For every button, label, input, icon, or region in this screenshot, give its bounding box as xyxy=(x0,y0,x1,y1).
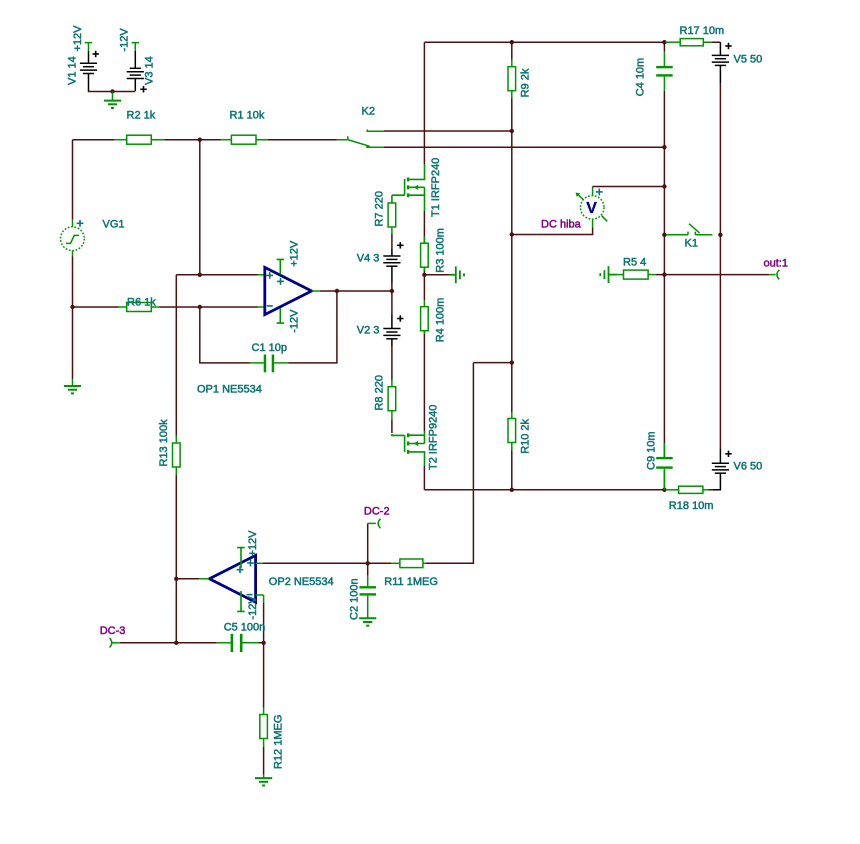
svg-text:R2 1k: R2 1k xyxy=(127,110,156,122)
resistor R10 xyxy=(508,412,532,454)
terminal out:1 xyxy=(764,258,788,280)
wire K2 lower branch xyxy=(384,146,665,148)
resistor R4 xyxy=(421,298,447,343)
resistor R2 xyxy=(114,110,164,145)
wire OP2 minus down xyxy=(263,603,265,643)
ground VG1 xyxy=(64,379,81,393)
wire bottom rail xyxy=(424,489,664,491)
battery V2 xyxy=(357,315,404,347)
node OP2 output R13 xyxy=(174,577,178,581)
transistor T2 IRFP9240 xyxy=(392,405,440,470)
wire R11 riser xyxy=(426,363,512,564)
svg-text:C9 10m: C9 10m xyxy=(645,431,657,470)
node voltmeter bottom xyxy=(510,232,514,236)
svg-text:out:1: out:1 xyxy=(764,258,788,270)
wire R6 row minus input xyxy=(73,306,258,308)
svg-text:C5 100n: C5 100n xyxy=(224,622,266,634)
node minus input xyxy=(198,305,202,309)
capacitor C1 xyxy=(250,342,289,372)
ground mid right-facing xyxy=(450,266,464,283)
node top rail C4 xyxy=(662,40,666,44)
svg-text:C1 10p: C1 10p xyxy=(252,342,287,354)
wire right vertical V5 to V6 xyxy=(719,83,721,449)
svg-text:T2 IRFP9240: T2 IRFP9240 xyxy=(428,405,440,470)
svg-text:V6 50: V6 50 xyxy=(734,461,763,473)
wire K2 upper branch xyxy=(384,130,512,132)
svg-text:-12V: -12V xyxy=(289,309,301,333)
op-amp OP2 xyxy=(199,530,334,620)
svg-text:V1 14: V1 14 xyxy=(67,56,79,85)
wire V1 V3 bottom row xyxy=(89,90,136,93)
svg-text:V2 3: V2 3 xyxy=(357,325,380,337)
ground R5 left-facing xyxy=(600,266,617,283)
svg-text:+12V: +12V xyxy=(247,530,259,557)
svg-text:R5 4: R5 4 xyxy=(623,257,646,269)
node K1 right xyxy=(718,233,722,237)
svg-text:V4 3: V4 3 xyxy=(357,253,380,265)
svg-text:V3 14: V3 14 xyxy=(144,56,156,85)
switch K1 xyxy=(666,224,712,235)
resistor R6 xyxy=(119,297,160,312)
wire R17 to V5 corner xyxy=(703,41,720,43)
svg-text:DC-3: DC-3 xyxy=(100,625,126,637)
svg-text:+12V: +12V xyxy=(289,240,301,267)
svg-text:T1 IRFP240: T1 IRFP240 xyxy=(430,158,442,217)
capacitor C4 xyxy=(635,52,673,97)
svg-text:R13 100k: R13 100k xyxy=(158,419,170,467)
node bottom rail R10 xyxy=(510,488,514,492)
wire R5 out row xyxy=(656,274,769,276)
svg-text:R9 2k: R9 2k xyxy=(520,68,532,97)
wire plus input row xyxy=(176,274,257,276)
terminal DC-3 xyxy=(100,625,126,648)
svg-text:V: V xyxy=(586,200,597,217)
resistor R8 xyxy=(374,375,396,420)
svg-text:C2 100n: C2 100n xyxy=(348,578,360,620)
svg-text:DC-2: DC-2 xyxy=(364,505,390,517)
svg-text:R3 100m: R3 100m xyxy=(435,228,447,273)
wire R3 mid node to ground xyxy=(424,274,449,276)
svg-text:DC hiba: DC hiba xyxy=(541,219,582,231)
resistor R11 xyxy=(384,559,438,588)
wire OP1 output row xyxy=(320,290,392,292)
node voltmeter top xyxy=(662,184,666,188)
svg-text:K2: K2 xyxy=(362,106,375,118)
svg-text:R10 2k: R10 2k xyxy=(520,418,532,453)
wire voltmeter bottom xyxy=(512,227,593,234)
wire C4 C9 vertical xyxy=(663,91,665,490)
capacitor C2 xyxy=(348,576,376,626)
transistor T1 IRFP240 xyxy=(392,158,442,217)
battery V3 xyxy=(119,28,156,93)
wire main left rail y140 xyxy=(73,139,337,141)
generator VG1 xyxy=(61,219,125,257)
node K2 lower C4 xyxy=(662,145,666,149)
node R5 out xyxy=(662,272,666,276)
wire OP2 plus input row xyxy=(263,562,391,564)
battery V4 xyxy=(357,242,404,283)
svg-text:R12 1MEG: R12 1MEG xyxy=(273,715,285,769)
node R2 R1 xyxy=(198,138,202,142)
ground R12 xyxy=(255,775,272,786)
node V1 V3 ground xyxy=(110,89,114,93)
svg-text:OP1 NE5534: OP1 NE5534 xyxy=(197,383,262,395)
wire OP2 output to R13 wire xyxy=(176,578,199,580)
svg-text:R4 100m: R4 100m xyxy=(435,298,447,343)
op-amp OP1 xyxy=(197,240,320,395)
ground top xyxy=(104,92,121,109)
node DC-2 C2 R11 xyxy=(366,561,370,565)
resistor R7 xyxy=(374,191,396,234)
node K2 upper R9 xyxy=(510,129,514,133)
capacitor C5 xyxy=(217,622,265,653)
terminal DC-2 xyxy=(364,505,390,528)
svg-text:VG1: VG1 xyxy=(103,219,125,231)
capacitor C9 xyxy=(645,431,672,489)
resistor R3 xyxy=(421,228,447,273)
node C5 R12 xyxy=(261,641,265,645)
voltmeter DC hiba xyxy=(541,188,607,231)
resistor R13 xyxy=(158,419,180,475)
svg-text:K1: K1 xyxy=(685,238,698,250)
battery V1 xyxy=(67,25,99,91)
svg-text:R17 10m: R17 10m xyxy=(680,25,725,37)
node R11 riser R10 xyxy=(510,360,514,364)
resistor R17 xyxy=(666,25,725,46)
svg-text:+12V: +12V xyxy=(72,25,84,52)
wire R18 to V6 xyxy=(709,489,714,491)
svg-text:R11 1MEG: R11 1MEG xyxy=(384,576,438,588)
node plus input xyxy=(198,273,202,277)
node bottom rail C9 R18 xyxy=(662,488,666,492)
wire voltmeter top xyxy=(593,187,665,188)
svg-text:R1 10k: R1 10k xyxy=(230,110,265,122)
svg-text:R18 10m: R18 10m xyxy=(669,500,714,512)
battery V6 xyxy=(712,449,762,490)
wire C1 feedback loop xyxy=(200,291,337,363)
wire R13 vertical chain xyxy=(175,275,177,643)
node V4 V2 opamp out xyxy=(390,289,394,293)
wire R12 stem xyxy=(263,643,265,775)
wire DC-3 C5 row xyxy=(120,642,264,644)
svg-text:C4 10m: C4 10m xyxy=(635,58,647,97)
wire R9 R10 vertical chain xyxy=(511,42,513,490)
wire DC-2 stem xyxy=(367,523,369,563)
svg-text:R8 220: R8 220 xyxy=(374,375,386,410)
resistor R1 xyxy=(221,110,269,145)
resistor R9 xyxy=(508,60,532,99)
resistor R5 xyxy=(617,257,656,280)
wire C2 stem upper xyxy=(367,563,369,575)
node top rail R9 xyxy=(510,40,514,44)
switch K2 xyxy=(337,130,384,148)
wire R1R2 node down to plus input xyxy=(199,140,201,275)
svg-text:R6 1k: R6 1k xyxy=(127,297,156,309)
node R3 R4 mid xyxy=(422,273,426,277)
svg-text:V5 50: V5 50 xyxy=(734,54,763,66)
svg-text:R7 220: R7 220 xyxy=(374,191,386,226)
node VG1 R6 xyxy=(70,305,74,309)
node C1 feedback tap xyxy=(335,289,339,293)
wire mid vertical top xyxy=(423,42,425,490)
svg-text:-12V: -12V xyxy=(119,28,131,52)
battery V5 xyxy=(712,42,762,83)
svg-text:OP2 NE5534: OP2 NE5534 xyxy=(269,576,334,588)
node DC-3 C5 xyxy=(174,641,178,645)
wire V4 V2 chain xyxy=(391,234,393,433)
wire top rail xyxy=(424,42,666,51)
svg-text:-12V: -12V xyxy=(247,596,259,620)
resistor R18 xyxy=(666,486,714,512)
wire left vertical VG1 xyxy=(72,140,74,380)
resistor R12 xyxy=(260,708,285,769)
node K1 left xyxy=(662,233,666,237)
